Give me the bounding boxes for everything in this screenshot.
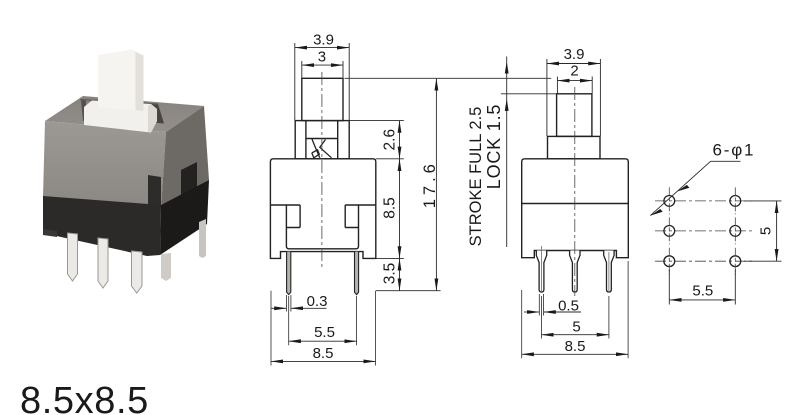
photo plunger hole back edge	[80, 100, 158, 105]
dimension 5.5 (pin layout)	[669, 270, 735, 305]
collar (side view)	[548, 136, 601, 158]
dimension 17.6	[435, 78, 437, 290]
photo front pin 3	[132, 251, 143, 293]
plunger (front view)	[302, 78, 343, 120]
body mid line (side view)	[522, 203, 629, 205]
dimension 8.5 (front bottom)	[271, 360, 376, 362]
dimension 3.9 (side)	[547, 59, 601, 136]
svg-text:5.5: 5.5	[314, 324, 335, 341]
photo plunger hole shadow right	[150, 104, 165, 124]
stroke dim arrows	[505, 61, 509, 73]
row centerline 2	[655, 230, 753, 232]
photo body top face	[45, 96, 204, 132]
svg-text:8.5x8.5: 8.5x8.5	[20, 380, 149, 415]
photo body right face	[161, 106, 209, 209]
centerline (front view)	[321, 72, 323, 268]
svg-text:STROKE FULL 2.5: STROKE FULL 2.5	[467, 107, 485, 247]
leader 6-phi1	[650, 161, 740, 215]
dimension 5.5 (front bottom)	[289, 340, 357, 342]
svg-text:2: 2	[570, 62, 578, 79]
dimension 5 (pin layout)	[744, 201, 782, 261]
photo latch tab right	[181, 162, 197, 203]
dimension 0.3	[272, 307, 327, 309]
svg-text:3.5: 3.5	[382, 263, 399, 285]
photo plunger stem shade	[134, 51, 144, 111]
pin1 centerline	[541, 246, 543, 291]
svg-text:0.3: 0.3	[307, 293, 328, 310]
photo body front face	[43, 121, 166, 209]
right notch (front view)	[345, 205, 376, 228]
centerline (side view)	[574, 87, 576, 296]
photo plunger flange shade	[148, 104, 157, 133]
bottom extensions (side)	[522, 261, 628, 358]
svg-text:2.6: 2.6	[381, 129, 398, 151]
photo base front face	[43, 196, 161, 256]
dimension 3.5	[399, 258, 401, 290]
photo base bottom-left notch	[43, 229, 57, 237]
photo plunger hole shadow left	[81, 100, 86, 121]
pin 1 (side view)	[536, 251, 546, 293]
hole B1	[730, 187, 741, 214]
collar inner wall right	[337, 121, 339, 159]
photo back pin mid	[161, 253, 171, 281]
row centerline 3	[655, 260, 753, 262]
svg-text:3.9: 3.9	[564, 46, 585, 63]
collar inner wall left	[305, 121, 307, 159]
svg-text:5.5: 5.5	[692, 282, 713, 299]
photo back pin right	[199, 219, 206, 258]
photo latch tab front	[148, 175, 161, 207]
row centerline 1	[655, 200, 753, 202]
right dim extension lines (front)	[349, 121, 440, 291]
svg-text:6-φ1: 6-φ1	[713, 141, 756, 160]
plunger (side view)	[557, 94, 592, 137]
photo plunger stem front	[98, 50, 144, 112]
hole A3	[664, 248, 675, 275]
pin3 centerline	[608, 252, 610, 291]
body outline (side view)	[522, 159, 629, 258]
pin right (front view)	[355, 252, 359, 295]
hole A2	[664, 217, 675, 244]
pin tip dashed extensions (front)	[271, 291, 376, 366]
hole B3	[730, 248, 741, 275]
svg-text:0.5: 0.5	[558, 298, 579, 315]
svg-text:5: 5	[572, 319, 580, 336]
dimension 3 (front)	[302, 61, 343, 78]
dimension 2 (side)	[557, 77, 592, 94]
pin 2 (side view)	[570, 251, 580, 293]
svg-text:5: 5	[758, 227, 775, 235]
left notch (front view)	[270, 205, 300, 228]
hole A1	[664, 187, 675, 214]
stroke dimension line	[501, 57, 557, 248]
pin 3 (side view)	[604, 251, 614, 293]
hole B2	[730, 217, 741, 244]
photo front pin 1	[68, 233, 78, 281]
svg-text:3.9: 3.9	[313, 31, 334, 48]
collar inner shelf	[306, 138, 338, 140]
dimension 3.9 (front)	[295, 43, 349, 120]
dimension 0.5	[524, 311, 581, 313]
dimension 8.5 (right side)	[399, 159, 401, 259]
extension line plunger top long	[345, 77, 552, 79]
lock mechanism cam detail	[312, 139, 332, 158]
dimension 5 (side bottom)	[542, 334, 609, 336]
svg-text:8.5: 8.5	[382, 197, 399, 219]
svg-text:8.5: 8.5	[313, 345, 334, 362]
svg-text:17.6: 17.6	[421, 160, 439, 208]
collar (front view)	[295, 121, 349, 159]
dimension 2.6	[399, 121, 401, 159]
body outline (front view)	[270, 159, 375, 259]
photo front pin 2	[98, 238, 108, 288]
dimension 8.5 (side bottom)	[522, 353, 628, 355]
svg-text:LOCK 1.5: LOCK 1.5	[484, 104, 504, 189]
inner cavity (front view)	[286, 205, 358, 249]
svg-text:3: 3	[318, 49, 326, 66]
photo base right face	[160, 180, 209, 255]
svg-text:8.5: 8.5	[565, 338, 586, 355]
pin left (front view)	[287, 252, 291, 295]
photo plunger flange	[84, 101, 157, 133]
